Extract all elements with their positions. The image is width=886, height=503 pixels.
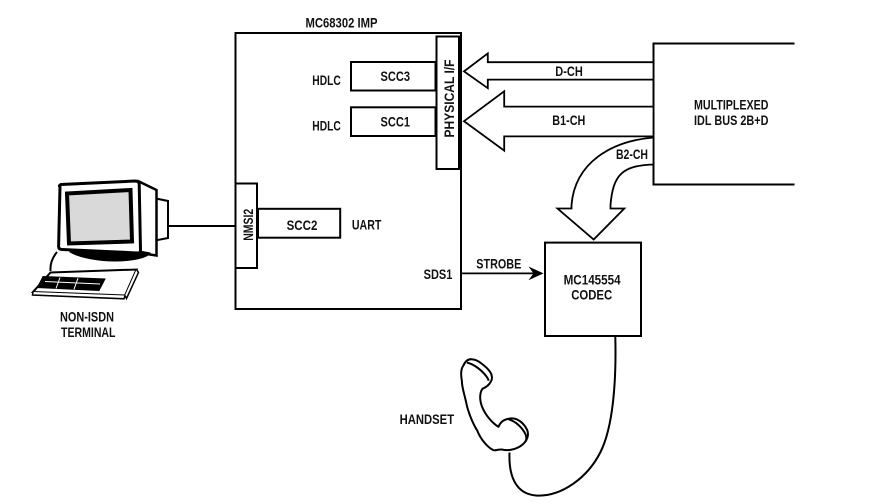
svg-text:B1-CH: B1-CH bbox=[552, 112, 585, 128]
svg-text:SCC2: SCC2 bbox=[287, 217, 318, 233]
terminal icon (monitor + keyboard) bbox=[33, 181, 169, 299]
svg-text:HANDSET: HANDSET bbox=[400, 411, 455, 427]
svg-text:TERMINAL: TERMINAL bbox=[61, 324, 116, 340]
terminal keyboard top bbox=[33, 270, 137, 296]
handset mouthpiece depth line bbox=[509, 419, 527, 441]
terminal CRT back protrusion bbox=[157, 199, 169, 241]
svg-text:MULTIPLEXED: MULTIPLEXED bbox=[694, 96, 769, 112]
block U1 MC68302 IMP bbox=[236, 33, 462, 309]
wire STROBE bbox=[461, 272, 536, 274]
arrow B2-CH curved band bbox=[558, 138, 654, 240]
block NMSI2 bbox=[236, 184, 258, 269]
svg-text:UART: UART bbox=[352, 217, 382, 233]
svg-text:CODEC: CODEC bbox=[571, 287, 612, 303]
svg-text:NMSI2: NMSI2 bbox=[240, 209, 256, 241]
svg-text:IDL BUS 2B+D: IDL BUS 2B+D bbox=[694, 112, 769, 128]
wire cord codec to handset bbox=[509, 337, 615, 496]
arrow D-CH bbox=[464, 53, 654, 88]
svg-text:HDLC: HDLC bbox=[312, 72, 341, 88]
svg-text:D-CH: D-CH bbox=[555, 63, 583, 79]
terminal screen bezel bbox=[67, 190, 132, 244]
terminal monitor side panel bbox=[139, 182, 157, 256]
block SCC3 bbox=[351, 62, 436, 91]
handset icon bbox=[461, 359, 528, 450]
svg-text:STROBE: STROBE bbox=[476, 256, 521, 272]
terminal neck bbox=[50, 252, 57, 271]
terminal keyboard front edge bbox=[33, 292, 126, 299]
svg-text:SDS1: SDS1 bbox=[424, 266, 453, 282]
terminal monitor front face bbox=[59, 181, 141, 253]
svg-text:MC68302 IMP: MC68302 IMP bbox=[306, 15, 378, 31]
block MULTIPLEXED IDL BUS 2B+D (open right edge) bbox=[654, 44, 795, 185]
svg-text:B2-CH: B2-CH bbox=[616, 146, 648, 162]
handset earpiece depth line bbox=[467, 363, 489, 381]
svg-text:PHYSICAL I/F: PHYSICAL I/F bbox=[441, 59, 457, 137]
svg-text:HDLC: HDLC bbox=[312, 118, 341, 134]
arrow B1-CH bbox=[464, 91, 654, 150]
svg-text:NON-ISDN: NON-ISDN bbox=[60, 309, 114, 325]
arrowhead STROBE bbox=[529, 267, 544, 281]
svg-text:SCC1: SCC1 bbox=[381, 114, 411, 130]
block SCC1 bbox=[351, 107, 436, 136]
block SCC2 bbox=[258, 209, 340, 238]
terminal keys bbox=[38, 277, 106, 291]
terminal key row highlights bbox=[45, 282, 100, 285]
terminal keyboard right edge bbox=[125, 270, 139, 299]
block PHYSICAL I/F bbox=[437, 37, 460, 170]
svg-text:MC145554: MC145554 bbox=[564, 271, 621, 287]
svg-text:SCC3: SCC3 bbox=[381, 68, 411, 84]
wire terminal to NMSI2 bbox=[168, 225, 235, 227]
block U2 MC145554 CODEC bbox=[545, 243, 641, 336]
terminal stand bbox=[70, 250, 150, 261]
